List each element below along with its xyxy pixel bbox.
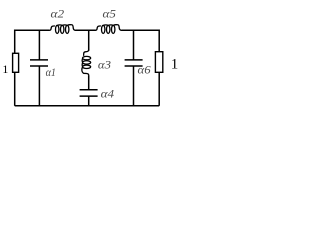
wire node drop to C alpha6 [133,30,135,60]
wire right resistor to bottom rail [158,73,160,106]
svg-text:α6: α6 [138,63,151,77]
svg-text:α2: α2 [51,6,65,20]
capacitor alpha4 [80,90,98,96]
inductor alpha5 [96,25,122,34]
inductor alpha2 [50,25,76,34]
svg-text:α4: α4 [101,86,115,100]
wire bottom rail [15,105,160,107]
capacitor alpha1 [30,60,48,66]
wire top rail right with right corner [121,30,159,52]
wire C alpha6 to bottom rail [133,66,135,106]
svg-text:α1: α1 [46,65,56,79]
wire top rail left with left corner [15,30,50,53]
wire left resistor to bottom rail [14,73,16,106]
wire L alpha3 to C alpha4 [88,75,90,90]
capacitor alpha6 [125,60,143,66]
svg-text:1: 1 [171,57,179,73]
svg-text:α3: α3 [98,57,111,71]
wire node drop to L alpha3 [88,30,90,51]
inductor alpha3 (vertical) [82,50,91,76]
wire top rail middle [75,29,96,31]
svg-text:α5: α5 [103,6,116,20]
resistor 1 (right) [155,52,162,73]
svg-text:1: 1 [2,62,8,76]
wire node drop to C alpha1 [38,30,40,60]
wire C alpha4 to bottom rail [88,96,90,106]
wire C alpha1 to bottom rail [38,66,40,106]
resistor 1 (left) [13,53,19,72]
